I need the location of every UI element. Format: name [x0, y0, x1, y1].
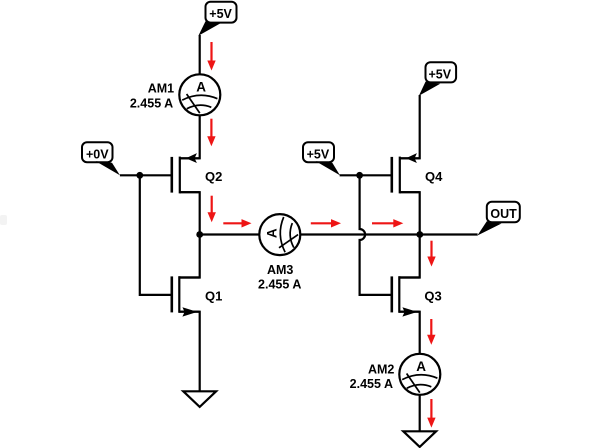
- svg-text:Q1: Q1: [205, 288, 222, 303]
- svg-text:Q3: Q3: [424, 288, 441, 303]
- svg-text:AM2: AM2: [368, 363, 394, 377]
- svg-text:+0V: +0V: [86, 148, 109, 162]
- svg-text:Q4: Q4: [425, 169, 443, 184]
- svg-text:+5V: +5V: [209, 7, 232, 21]
- svg-text:Q2: Q2: [205, 169, 222, 184]
- svg-text:AM3: AM3: [267, 263, 293, 277]
- svg-text:2.455 A: 2.455 A: [258, 277, 301, 291]
- svg-text:+5V: +5V: [307, 148, 330, 162]
- svg-text:+5V: +5V: [429, 68, 452, 82]
- svg-text:2.455 A: 2.455 A: [130, 96, 173, 110]
- svg-text:2.455 A: 2.455 A: [350, 377, 393, 391]
- svg-text:AM1: AM1: [148, 82, 174, 96]
- svg-text:OUT: OUT: [490, 207, 517, 221]
